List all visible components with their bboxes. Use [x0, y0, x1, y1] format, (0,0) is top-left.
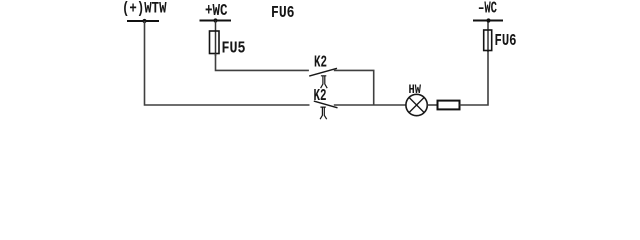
- wire resistor right then up to fuse FU6: [460, 51, 489, 106]
- contact K2 (lower): [314, 86, 338, 119]
- resistor R: [438, 101, 460, 110]
- svg-text:+WC: +WC: [205, 1, 228, 20]
- node (+)WTW: [122, 0, 167, 23]
- wire FU5 down then right to upper K2 contact: [216, 54, 309, 71]
- svg-text:K2: K2: [314, 53, 327, 72]
- wire (+)WTW bus down and bottom rail to lower K2 contact: [145, 21, 310, 105]
- node -WC: [473, 0, 503, 23]
- lamp HW: [406, 83, 427, 116]
- svg-text:FU6: FU6: [495, 31, 517, 50]
- svg-text:FU6: FU6: [271, 3, 295, 22]
- svg-text:–WC: –WC: [478, 0, 497, 17]
- fuse FU6: [484, 21, 517, 53]
- node +WC: [200, 1, 232, 22]
- svg-text:FU5: FU5: [222, 38, 246, 57]
- fuse FU5: [210, 31, 246, 57]
- wire lamp to resistor: [427, 104, 438, 106]
- wire +WC to fuse FU5: [215, 21, 217, 57]
- contact K2 (upper): [309, 53, 337, 89]
- label FU6 (floating): [271, 3, 295, 22]
- wire lower K2 to lamp HW: [334, 104, 406, 106]
- svg-text:(+)WTW: (+)WTW: [122, 0, 167, 18]
- wire upper K2 to right, down to bottom rail: [334, 70, 374, 105]
